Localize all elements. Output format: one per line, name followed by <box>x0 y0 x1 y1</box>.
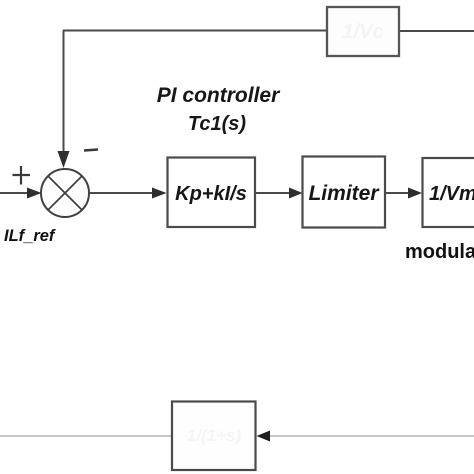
arrowhead input into summing junction <box>27 188 42 199</box>
svg-text:Tc1(s): Tc1(s) <box>188 113 247 135</box>
block H1 feedback (faded) <box>327 7 399 56</box>
wire PI block to limiter <box>255 192 290 194</box>
arrowhead into limiter <box>289 188 303 199</box>
arrowhead into modulator gain <box>408 188 422 199</box>
arrowhead into sensor block (pointing left) <box>257 431 271 442</box>
wire feedback vertical drop <box>63 31 65 154</box>
svg-text:1/Vm: 1/Vm <box>429 183 474 205</box>
svg-text:Limiter: Limiter <box>308 182 380 205</box>
block U2 limiter <box>303 157 386 228</box>
wire bottom right segment <box>269 435 474 437</box>
svg-text:1/(1+s): 1/(1+s) <box>187 426 242 445</box>
summing junction S1 <box>41 169 89 217</box>
svg-text:Kp+kI/s: Kp+kI/s <box>175 183 247 205</box>
wire input ILf_ref <box>0 192 28 194</box>
arrowhead into PI block <box>152 188 167 199</box>
svg-text:ILf_ref: ILf_ref <box>4 227 56 245</box>
wire feedback top horizontal right segment <box>399 30 474 32</box>
wire feedback top horizontal left segment <box>63 30 327 32</box>
arrowhead into summing junction top <box>58 151 70 168</box>
block U1 PI controller Kp+kI/s <box>168 158 256 228</box>
wire bottom left segment <box>0 435 172 437</box>
block H2 sensor (faded) <box>172 402 256 471</box>
block U3 modulator gain 1/Vm <box>423 158 474 227</box>
minus sign at summing junction <box>84 150 98 151</box>
plus sign at summing junction <box>13 166 31 185</box>
svg-text:PI controller: PI controller <box>157 84 281 107</box>
svg-text:modulator: modulator <box>405 241 474 263</box>
wire summing junction to PI block <box>89 192 153 194</box>
svg-text:1/Vc: 1/Vc <box>342 21 383 43</box>
wire limiter to modulator gain <box>385 192 409 194</box>
